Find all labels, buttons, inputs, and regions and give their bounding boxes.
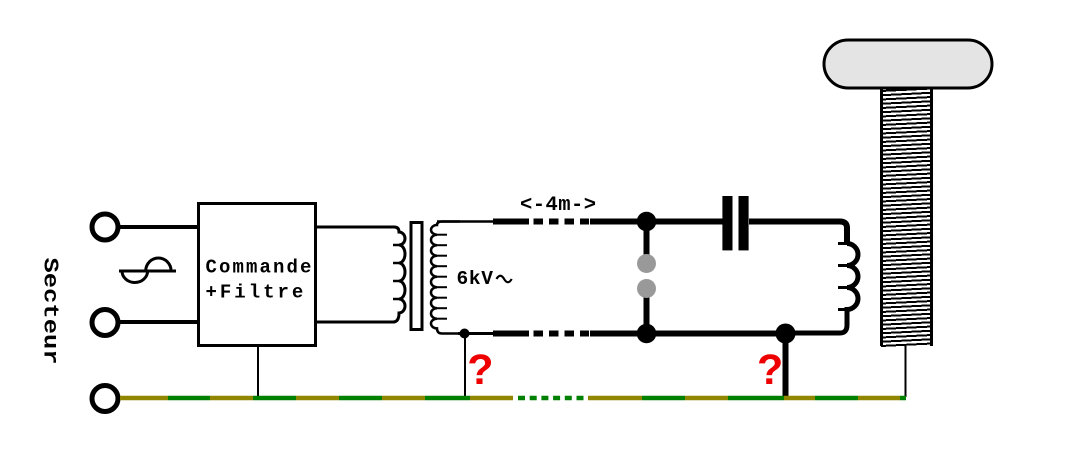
svg-text:Secteur: Secteur [37, 258, 62, 365]
terminal earth bottom [92, 386, 118, 412]
toroid top load [824, 40, 992, 88]
wire box to transformer primary bottom [316, 321, 395, 324]
cable bottom dashed section [534, 331, 590, 337]
transformer primary winding [393, 227, 405, 322]
wire primary junction to earth [783, 334, 789, 399]
wire tower to earth [905, 346, 907, 397]
wire capacitor to primary coil with corner [749, 222, 847, 244]
junction primary bottom [776, 324, 796, 344]
cable bottom thick section [493, 331, 529, 337]
primary coil L1 [792, 244, 858, 334]
spark gap node bottom [637, 324, 657, 344]
svg-text:6kV: 6kV [457, 268, 494, 290]
terminal neutral middle [92, 310, 118, 336]
svg-text:+Filtre: +Filtre [206, 282, 307, 304]
transformer secondary winding [431, 222, 460, 334]
wire junction to earth (question spot) [464, 334, 466, 397]
capacitor plate left [722, 196, 732, 250]
secondary coil tower [881, 88, 932, 346]
capacitor plate right [739, 196, 749, 250]
wire box to transformer primary top [316, 226, 395, 229]
wire neutral terminal to box [118, 320, 198, 324]
wire box to earth [257, 346, 259, 396]
sine glyph after 6kV [497, 276, 512, 283]
cable top solid to capacitor [590, 219, 723, 225]
svg-text:Commande: Commande [206, 257, 314, 279]
box Commande+Filtre [199, 204, 316, 346]
svg-text:<-4m->: <-4m-> [520, 194, 597, 217]
AC sine symbol [119, 258, 176, 282]
spark gap electrode upper [637, 254, 656, 273]
spark gap wire top [644, 222, 650, 258]
transformer core [411, 223, 422, 330]
svg-text:?: ? [467, 346, 493, 394]
junction secondary bottom [460, 329, 470, 339]
spark gap wire bottom [644, 296, 650, 334]
earth wire green-yellow [120, 396, 906, 401]
cable bottom thin section [458, 332, 494, 335]
terminal phase top [92, 214, 118, 240]
svg-text:?: ? [757, 346, 783, 394]
cable top dashed section [534, 219, 590, 225]
spark gap electrode lower [637, 279, 656, 298]
cable top thin section [437, 220, 494, 223]
spark gap node top [637, 212, 657, 232]
cable bottom solid to primary junction [590, 331, 793, 337]
cable top thick section [493, 219, 529, 225]
wire phase terminal to box [118, 225, 198, 229]
